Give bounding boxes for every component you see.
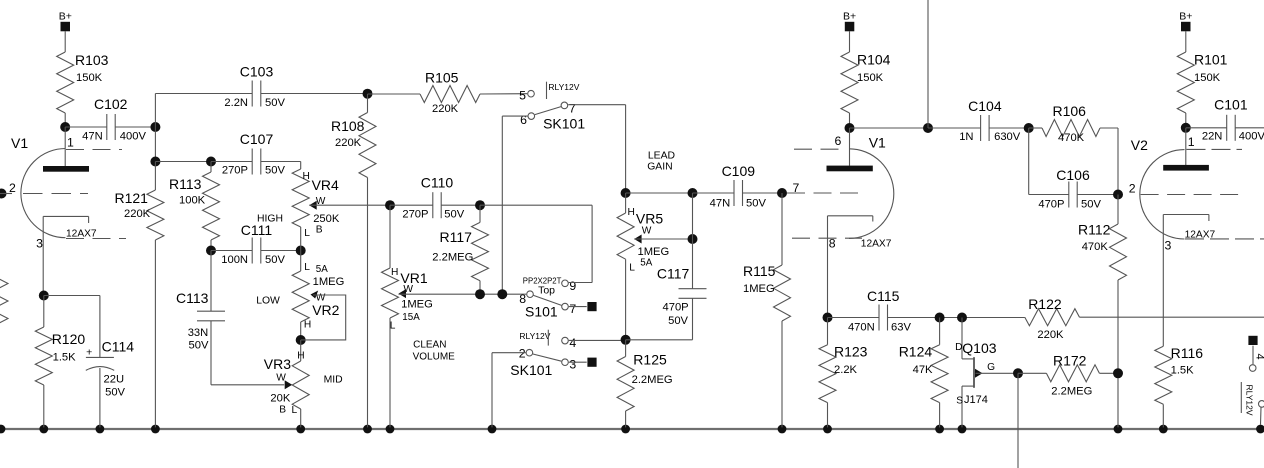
svg-text:H: H (304, 319, 311, 330)
svg-text:R117: R117 (440, 229, 473, 245)
svg-text:C114: C114 (102, 339, 135, 355)
svg-text:1MEG: 1MEG (743, 283, 775, 295)
svg-text:3: 3 (569, 358, 576, 372)
svg-text:H: H (297, 351, 304, 362)
svg-text:R105: R105 (425, 70, 459, 86)
svg-text:4: 4 (1254, 354, 1264, 360)
svg-text:C102: C102 (94, 96, 128, 112)
svg-text:R112: R112 (1078, 222, 1111, 238)
svg-text:2: 2 (519, 347, 526, 361)
svg-text:4: 4 (569, 336, 576, 350)
svg-text:B: B (316, 225, 323, 236)
svg-text:B: B (279, 404, 286, 415)
svg-text:C103: C103 (240, 63, 274, 79)
svg-text:B+: B+ (59, 11, 72, 23)
svg-text:L: L (629, 262, 635, 273)
svg-text:8: 8 (829, 237, 836, 251)
svg-text:VR4: VR4 (312, 177, 339, 193)
svg-text:150K: 150K (1194, 72, 1221, 84)
svg-text:R108: R108 (331, 118, 365, 134)
svg-text:C115: C115 (867, 288, 900, 304)
svg-text:2.2N: 2.2N (224, 97, 248, 109)
svg-text:3: 3 (1165, 239, 1172, 253)
svg-text:2.2MEG: 2.2MEG (632, 374, 673, 386)
svg-text:220K: 220K (335, 137, 362, 149)
svg-text:+: + (86, 346, 92, 358)
svg-text:L: L (292, 405, 298, 416)
svg-text:LOW: LOW (256, 296, 280, 307)
svg-text:H: H (628, 207, 635, 218)
svg-text:V1: V1 (869, 135, 886, 151)
svg-text:1.5K: 1.5K (1171, 365, 1195, 377)
svg-text:9: 9 (569, 279, 576, 293)
svg-text:50V: 50V (265, 254, 285, 266)
svg-text:S101: S101 (525, 303, 558, 319)
svg-text:1N: 1N (959, 131, 973, 143)
svg-text:C113: C113 (176, 290, 209, 306)
svg-text:VR2: VR2 (312, 302, 339, 318)
svg-text:V2: V2 (1131, 137, 1148, 153)
svg-text:47K: 47K (913, 364, 933, 376)
svg-text:150K: 150K (76, 72, 103, 84)
svg-text:C110: C110 (421, 174, 454, 190)
svg-text:630V: 630V (994, 131, 1021, 143)
svg-text:1MEG: 1MEG (313, 276, 345, 288)
svg-text:W: W (642, 226, 652, 237)
svg-text:Top: Top (538, 285, 555, 297)
svg-text:B+: B+ (1179, 11, 1192, 23)
svg-text:2: 2 (1129, 181, 1136, 195)
svg-text:H: H (303, 171, 310, 182)
svg-text:1.5K: 1.5K (53, 351, 77, 363)
svg-text:R120: R120 (52, 331, 86, 347)
svg-text:R104: R104 (857, 52, 891, 68)
svg-text:22N: 22N (1202, 130, 1223, 142)
svg-text:50V: 50V (444, 208, 464, 220)
svg-text:100K: 100K (179, 195, 206, 207)
svg-text:C107: C107 (240, 131, 274, 147)
svg-text:RLY12V: RLY12V (1245, 385, 1255, 416)
svg-text:470P: 470P (1038, 199, 1064, 211)
svg-text:50V: 50V (189, 340, 209, 352)
svg-text:R172: R172 (1053, 353, 1087, 369)
svg-text:400V: 400V (1239, 130, 1264, 142)
svg-text:GAIN: GAIN (647, 161, 672, 172)
svg-text:270P: 270P (402, 208, 428, 220)
svg-text:V1: V1 (11, 135, 28, 151)
svg-text:R123: R123 (834, 343, 868, 359)
svg-text:12AX7: 12AX7 (66, 229, 97, 240)
svg-text:12AX7: 12AX7 (861, 239, 892, 250)
svg-text:50V: 50V (1081, 199, 1101, 211)
svg-text:C109: C109 (722, 163, 756, 179)
svg-text:SK101: SK101 (510, 362, 552, 378)
svg-text:12AX7: 12AX7 (1185, 230, 1216, 241)
svg-text:22U: 22U (104, 373, 125, 385)
svg-text:220K: 220K (124, 208, 151, 220)
svg-text:7: 7 (569, 302, 576, 316)
svg-text:3: 3 (36, 237, 43, 251)
svg-text:7: 7 (569, 101, 576, 115)
svg-text:MID: MID (324, 375, 343, 386)
svg-text:R115: R115 (743, 263, 776, 279)
svg-text:470N: 470N (848, 321, 875, 333)
svg-text:VOLUME: VOLUME (413, 352, 456, 363)
svg-text:5A: 5A (640, 258, 652, 269)
svg-text:R116: R116 (1171, 345, 1204, 361)
svg-text:C117: C117 (657, 266, 690, 282)
svg-text:6: 6 (520, 113, 527, 127)
svg-text:CLEAN: CLEAN (413, 340, 446, 351)
svg-text:Q103: Q103 (962, 340, 996, 356)
svg-text:R124: R124 (899, 343, 933, 359)
svg-text:C104: C104 (968, 98, 1002, 114)
svg-text:C106: C106 (1056, 167, 1090, 183)
svg-text:400V: 400V (120, 131, 147, 143)
svg-text:33N: 33N (188, 327, 209, 339)
svg-text:220K: 220K (1037, 329, 1064, 341)
svg-text:47N: 47N (710, 198, 731, 210)
svg-text:1: 1 (67, 136, 74, 150)
svg-text:6: 6 (834, 134, 841, 148)
svg-text:R125: R125 (633, 352, 667, 368)
svg-text:50V: 50V (265, 165, 285, 177)
svg-text:20K: 20K (270, 393, 290, 405)
svg-text:470K: 470K (1058, 132, 1085, 144)
svg-text:220K: 220K (432, 103, 459, 115)
svg-text:15A: 15A (402, 312, 420, 323)
svg-text:150K: 150K (857, 72, 884, 84)
svg-text:470P: 470P (663, 302, 689, 314)
svg-text:47N: 47N (82, 131, 103, 143)
svg-text:2.2MEG: 2.2MEG (1051, 385, 1092, 397)
svg-text:R106: R106 (1053, 103, 1087, 119)
svg-text:R103: R103 (75, 52, 109, 68)
svg-text:63V: 63V (891, 321, 911, 333)
svg-text:R122: R122 (1028, 296, 1062, 312)
svg-text:50V: 50V (105, 387, 125, 399)
svg-text:J174: J174 (964, 394, 988, 406)
svg-text:50V: 50V (746, 198, 766, 210)
svg-text:L: L (390, 320, 396, 331)
svg-text:2.2K: 2.2K (834, 364, 858, 376)
svg-text:H: H (391, 267, 398, 278)
svg-text:470K: 470K (1082, 241, 1109, 253)
svg-text:RLY12V: RLY12V (548, 82, 579, 92)
svg-text:VR3: VR3 (264, 356, 291, 372)
svg-text:B+: B+ (843, 11, 856, 23)
svg-text:G: G (987, 362, 995, 373)
svg-text:5A: 5A (316, 264, 328, 275)
svg-text:SK101: SK101 (543, 115, 585, 131)
svg-text:2.2MEG: 2.2MEG (432, 251, 473, 263)
svg-text:1MEG: 1MEG (401, 298, 433, 310)
svg-text:S: S (956, 396, 963, 407)
svg-text:50V: 50V (265, 97, 285, 109)
svg-text:1MEG: 1MEG (638, 246, 670, 258)
svg-text:R101: R101 (1194, 52, 1228, 68)
svg-text:L: L (304, 262, 310, 273)
svg-text:1: 1 (1188, 135, 1195, 149)
svg-text:5: 5 (519, 89, 526, 103)
svg-text:RLY12V: RLY12V (519, 331, 550, 341)
svg-text:R121: R121 (115, 190, 149, 206)
svg-text:C101: C101 (1214, 96, 1248, 112)
svg-text:100N: 100N (221, 254, 248, 266)
svg-text:50V: 50V (668, 315, 688, 327)
svg-text:LEAD: LEAD (648, 150, 675, 161)
svg-text:2: 2 (9, 181, 16, 195)
svg-text:HIGH: HIGH (257, 214, 283, 225)
svg-text:L: L (304, 228, 310, 239)
svg-text:VR5: VR5 (636, 210, 663, 226)
svg-text:250K: 250K (313, 213, 340, 225)
svg-text:R113: R113 (169, 176, 202, 192)
svg-text:270P: 270P (222, 165, 248, 177)
